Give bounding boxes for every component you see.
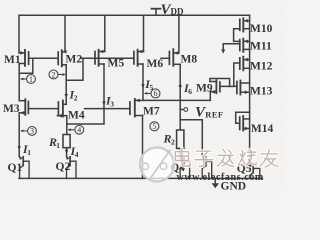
terminal VREF <box>184 108 188 112</box>
wire M2 source drop <box>64 15 66 52</box>
label VDD <box>22 2 224 159</box>
wire M3 source down to Q1 <box>18 113 20 157</box>
wire M9 source to VREF node <box>209 92 211 101</box>
svg-text:M12: M12 <box>250 61 273 73</box>
wire right spine <box>249 15 251 163</box>
svg-text:5: 5 <box>152 122 156 131</box>
wire M4 source to R1 <box>66 116 68 135</box>
wire M5 drain to cascode gate bus (I3) <box>67 64 104 124</box>
watermark logo <box>140 148 174 182</box>
svg-text:3: 3 <box>30 127 34 136</box>
ground stub <box>214 178 216 183</box>
wire gate bus M6-M8 <box>161 57 169 59</box>
svg-text:M6: M6 <box>147 58 164 70</box>
svg-text:2: 2 <box>74 94 78 103</box>
wire branch to Q3 <box>180 120 202 157</box>
svg-text:1: 1 <box>29 75 33 84</box>
wire M6 source drop <box>143 15 145 51</box>
svg-text:2: 2 <box>171 137 175 146</box>
wire M9 drain diode loop <box>210 79 230 87</box>
transistor Q5 <box>249 163 260 179</box>
wire M14 diode staple <box>236 112 250 123</box>
transistor Q1 <box>19 156 29 179</box>
node 2 <box>49 70 66 79</box>
svg-text:4: 4 <box>75 150 79 159</box>
current arrow I5 <box>141 84 145 88</box>
svg-text:M2: M2 <box>66 53 83 65</box>
svg-text:M11: M11 <box>250 41 272 53</box>
watermark chinese text <box>175 148 278 167</box>
transistor Q3 <box>202 156 212 179</box>
wire gate bus M2-M5-M6 <box>82 57 134 59</box>
transistor M7 <box>130 99 210 117</box>
transistor M12 <box>240 57 250 71</box>
svg-text:3: 3 <box>110 99 114 108</box>
svg-text:M7: M7 <box>143 105 160 117</box>
wire M12 gate chain <box>234 63 240 86</box>
wire M11 gate startup arrow <box>223 44 240 50</box>
transistor Q2 <box>66 156 76 179</box>
svg-text:M14: M14 <box>251 123 274 135</box>
transistor M14 <box>240 116 250 131</box>
wire M5 source drop <box>104 15 106 51</box>
node 1 <box>20 75 36 84</box>
node 5 <box>150 122 159 131</box>
wire M8 source drop <box>178 15 180 53</box>
wire M10 gate to M11 gate <box>234 29 240 42</box>
wire M2 diode tap <box>66 58 83 80</box>
VDD supply symbol <box>155 9 157 15</box>
wire VREF tap <box>180 109 184 111</box>
wire M1 drain to M3 <box>18 64 20 101</box>
svg-text:M4: M4 <box>68 110 85 122</box>
current arrow I4 <box>65 150 69 154</box>
node 6 <box>144 89 160 98</box>
transistor M5 <box>95 50 105 66</box>
wire R2 to Q4 <box>179 148 181 157</box>
wire gate bus M3-M4 <box>28 108 58 110</box>
transistor M6 <box>134 50 144 66</box>
wire M6 drain to M7 source (I5) <box>142 64 144 100</box>
transistor M10 <box>240 18 250 31</box>
svg-text:M10: M10 <box>250 23 273 35</box>
current arrow I1 <box>17 146 21 150</box>
transistor M4 <box>57 101 66 118</box>
svg-text:Q1: Q1 <box>8 162 23 174</box>
wire R1 to Q2 <box>66 148 68 157</box>
svg-text:M5: M5 <box>108 57 125 69</box>
current arrow I3 <box>102 102 106 106</box>
svg-text:4: 4 <box>77 126 81 135</box>
svg-text:6: 6 <box>154 89 158 98</box>
svg-text:2: 2 <box>52 70 56 79</box>
wire ground rail <box>19 177 262 179</box>
resistor R2 <box>177 130 184 148</box>
svg-text:M9: M9 <box>196 82 213 94</box>
svg-text:Q2: Q2 <box>56 161 71 173</box>
transistor Q4 <box>180 156 190 179</box>
wire M1 diode tap <box>19 58 33 73</box>
wire M9 gate to M13 gate <box>220 85 237 87</box>
svg-text:REF: REF <box>205 109 223 119</box>
node 4 <box>67 125 83 134</box>
wire gate bus M1-M2 <box>29 57 59 59</box>
transistor M2 <box>58 50 66 66</box>
svg-text:M8: M8 <box>181 54 198 66</box>
ground arrow <box>212 183 219 188</box>
wire M8 drain / VREF node (I6) <box>179 64 181 130</box>
svg-text:M13: M13 <box>250 85 273 97</box>
current arrow I2 <box>64 94 68 98</box>
transistor M8 <box>169 49 180 66</box>
svg-text:1: 1 <box>27 148 31 157</box>
svg-text:M1: M1 <box>4 54 21 66</box>
startup arrow near M11 <box>221 49 225 53</box>
transistor M3 <box>19 99 28 115</box>
svg-text:M3: M3 <box>3 103 20 115</box>
current arrow I6 <box>178 85 182 89</box>
wire M2 drain to M4 (node I2) <box>65 65 67 105</box>
transistor M11 <box>240 39 250 52</box>
transistor M13 <box>237 81 250 95</box>
svg-text:www.elecfans.com: www.elecfans.com <box>177 172 264 183</box>
transistor M1 <box>19 50 29 66</box>
svg-text:1: 1 <box>56 141 60 150</box>
svg-text:6: 6 <box>188 87 192 96</box>
svg-text:5: 5 <box>150 83 154 92</box>
node 3 <box>20 126 36 135</box>
wire M7 drain down <box>142 116 144 179</box>
wire gate bus M4-M7 <box>85 108 130 110</box>
wire VDD rail <box>19 15 250 52</box>
resistor R1 <box>63 135 70 148</box>
svg-text:DD: DD <box>171 6 184 16</box>
transistor M9 <box>210 80 220 93</box>
